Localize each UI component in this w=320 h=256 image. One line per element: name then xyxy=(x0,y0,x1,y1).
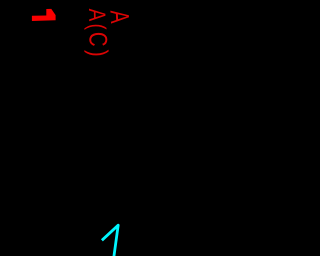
svg-text:A: A xyxy=(105,9,135,24)
